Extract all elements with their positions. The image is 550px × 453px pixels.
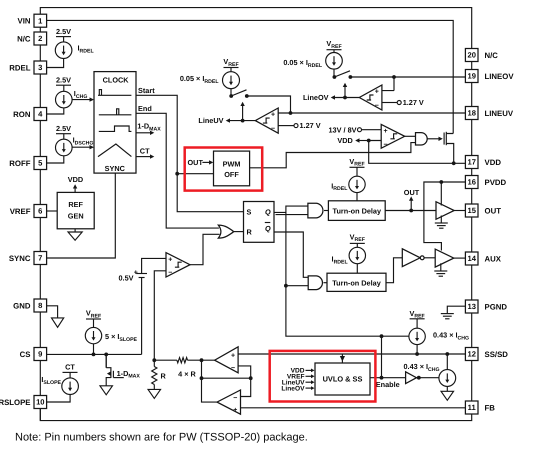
wire LineOV feedback arrow up to switch [343, 83, 347, 98]
wire OR output to R input [234, 231, 244, 233]
gate OR into latch R [218, 225, 233, 238]
wire ICHG source to pin 4 [47, 108, 64, 114]
node VDD arrow label [337, 136, 368, 145]
node OUT input label into PWM OFF [188, 158, 214, 167]
wire PVDD rail to drivers [424, 182, 466, 251]
node LineUV output junction [241, 119, 245, 123]
pin 20 N/C [465, 49, 498, 62]
current source IRDEL [55, 42, 94, 59]
resistor 4xR [154, 358, 214, 379]
node A summing junction [152, 358, 156, 362]
node junction 5xISLOPE/CS [92, 353, 96, 357]
wire lower delay output up to inverter [386, 258, 402, 283]
wire comparator output up to OR gate input [190, 234, 220, 264]
wire CS pin to comparator riser [47, 344, 142, 368]
pin 6 VREF [10, 205, 47, 218]
wire switch to LineUV comparator plus input and pin 18 [247, 96, 466, 113]
wire slope comparator plus input to SS/SD rail [238, 353, 465, 355]
wire VREF pin to REF GEN [47, 210, 58, 212]
wire enable buffer to SS discharge source [417, 377, 440, 379]
wire right border segment [471, 120, 473, 156]
wire 1-DMAX arrow [136, 131, 154, 135]
wire AND output arrow to pass FET gate [428, 137, 443, 141]
block CLOCK oscillator [94, 72, 136, 174]
IC outline bottom border [40, 409, 471, 421]
pin 16 PVDD [465, 176, 506, 189]
wire upper AND gate lower input [276, 214, 308, 216]
wire right border segment [471, 217, 473, 252]
pin 7 SYNC [9, 252, 47, 265]
node junction charge/SS [415, 352, 419, 356]
buffer U-enable [404, 362, 440, 383]
wire EA plus input to FB pin [241, 407, 466, 409]
wire right border segment [471, 189, 473, 205]
pin 15 OUT [465, 204, 501, 217]
wire Start from CLOCK down to PWM OFF and latch S [136, 95, 244, 211]
wire ISLOPE to RSLOPE pin [47, 395, 71, 403]
pin 12 SS/SD [465, 348, 508, 361]
current source ICHG [56, 89, 88, 108]
ground below REF GEN [68, 229, 82, 241]
wire End from CLOCK down to OR gate input [136, 113, 219, 228]
resistor R [152, 360, 167, 389]
wire right border segment [471, 83, 473, 107]
gate AND U-out [308, 203, 323, 218]
power rail VREF for LineUV source [223, 57, 238, 72]
node junction discharge/SS [445, 352, 449, 356]
node junction buffer output [417, 376, 421, 380]
wire SS rail tap into UVLO block top [340, 354, 345, 363]
comparator U-LineOV (points left) [359, 85, 382, 110]
pin 11 FB [465, 401, 495, 414]
current source 0.43xICHG charge [409, 328, 469, 344]
wire Q branch down to lower AND and 0.43 source line [286, 212, 409, 336]
node junction enable drop [380, 376, 384, 380]
node feedback junction [200, 376, 204, 380]
switch LineOV hysteresis [333, 69, 353, 79]
block PWM OFF [214, 151, 250, 186]
node OUT tap with up arrow [404, 188, 420, 212]
wire left border segment [39, 170, 41, 205]
current source 5xISLOPE [85, 327, 137, 343]
comparator U-PWM (0.5V CS comparator) [166, 253, 190, 277]
node minus tie junction [249, 376, 253, 380]
wire left border segment [39, 27, 41, 32]
ground under discharge source [441, 391, 454, 400]
current source IRDEL lower delay [332, 247, 366, 265]
wire switch to LineOV comparator plus input and pin 19 [350, 77, 465, 91]
wire left border segment [39, 265, 41, 300]
wire junction to lower AND bottom input [286, 285, 308, 287]
wire comparator output to AND gate [405, 135, 416, 137]
pin 1 VIN [18, 14, 47, 27]
power rail VREF for 5xISLOPE [86, 309, 101, 328]
wire latch Qbar to lower AND top input [274, 232, 308, 277]
pin 19 LINEOV [465, 70, 514, 83]
block UVLO and SS [315, 363, 370, 395]
switch LineUV hysteresis [229, 89, 248, 98]
node slope summing output junction [200, 358, 204, 362]
node 13V/8V terminal [329, 125, 382, 134]
wire left border segment [39, 218, 41, 252]
ground at GND pin [47, 306, 64, 328]
current source IRDEL upper delay [331, 176, 365, 192]
highlight red box around PWM OFF [185, 148, 263, 191]
power rail VREF upper turn-on delay [349, 157, 364, 176]
node junction Start/PWMOFF [175, 172, 179, 176]
current source 0.43xICHG discharge [439, 370, 456, 387]
power rail 2.5V for ICHG [56, 76, 71, 92]
wire inverter to AUX driver [424, 257, 435, 259]
current source 0.05xIRDEL LineUV [180, 72, 240, 89]
current source IDSCHG [56, 136, 94, 156]
battery 0.5V offset [118, 270, 147, 283]
wire driver to AUX pin [454, 257, 466, 259]
current source 0.05xIRDEL LineOV [283, 53, 342, 70]
pin 14 AUX [465, 252, 501, 265]
node junction LineOV plus [392, 75, 396, 79]
node LineOV input into UVLO [281, 385, 314, 392]
power rail VREF for 0.43 charge source [409, 309, 424, 328]
wire 0.43 line down to Enable wire [381, 336, 383, 378]
node Q branch junction to lower AND [284, 284, 288, 288]
wire source into delay block [356, 193, 358, 201]
wire right border segment [471, 265, 473, 300]
power rail VREF for LineOV source [326, 39, 341, 53]
node junction on 0.43 control line [380, 334, 384, 338]
pin 18 LINEUV [465, 107, 513, 120]
node junction DMAX switch/CS [104, 353, 108, 357]
wire left border segment [39, 312, 41, 348]
wire REF GEN VDD arrow up [73, 184, 77, 192]
wire left border segment [39, 121, 41, 157]
current source ISLOPE [41, 375, 78, 395]
wire left border to bottom [39, 409, 41, 421]
wire SS rail down to discharge source [446, 354, 448, 370]
IC outline top border [40, 8, 471, 49]
wire discharge source to ground [446, 386, 448, 391]
pin 10 RSLOPE [0, 396, 47, 409]
pin 9 CS [20, 348, 47, 361]
wire comparator plus input to battery and CS wire [142, 258, 166, 354]
wire LineUV comparator output with arrow to LineUV net [198, 116, 255, 125]
wire PVDD down into OUT driver [440, 182, 442, 206]
node Enable output [370, 378, 406, 390]
block Turn-on Delay upper [328, 201, 385, 221]
highlight red box around UVLO and SS [270, 351, 376, 402]
wire source into lower delay block [356, 264, 358, 274]
wire PWM OFF output to AND gate second input [250, 143, 416, 168]
pin 3 RDEL [9, 61, 46, 74]
ground at PGND pin [441, 306, 466, 319]
transistor Q1 VDD pass FET [444, 132, 454, 164]
block REF GEN [57, 192, 94, 228]
comparator U-VDDUVLO 13V/8V (points right) [381, 124, 405, 148]
pin 5 ROFF [9, 157, 46, 170]
wire AND to lower Turn-on Delay [324, 282, 328, 284]
wire left border segment [39, 45, 41, 61]
node PVDD junction above OUT driver [439, 180, 443, 184]
wire charge source to SS rail [416, 345, 418, 354]
wire right border segment [471, 62, 473, 70]
power rail 2.5V for IDSCHG [56, 124, 71, 139]
node CT rail for ISLOPE [63, 363, 78, 378]
wire VDD junction down to VDD rail [369, 141, 466, 164]
wire delay output to OUT driver [385, 210, 436, 212]
wire right border segment [471, 169, 473, 176]
pin 8 GND [13, 299, 46, 312]
wire LineUV comparator minus to 1.27V terminal [278, 121, 321, 130]
wire LineOV comparator output with arrow to LineOV net [303, 93, 359, 102]
wire right border segment [471, 48, 473, 50]
node LineOV output junction [343, 96, 347, 100]
wire latch Q output to upper AND gate (step up) [274, 206, 308, 212]
power rail VREF lower turn-on delay [350, 232, 365, 247]
pin 4 RON [13, 108, 46, 121]
wire IDSCHG arrow into CLOCK [72, 145, 94, 149]
wire IDSCHG source to pin 5 [47, 156, 64, 163]
block Turn-on Delay lower [327, 273, 386, 291]
node VDD input into UVLO [291, 368, 315, 375]
wire left border segment [39, 74, 41, 108]
wire right border segment [471, 313, 473, 348]
wire right border segment [471, 361, 473, 402]
driver buffer U-AUX [435, 249, 454, 267]
wire LineOV comparator minus to 1.27V terminal [382, 98, 424, 107]
node VDD rail junction at pass FET source [452, 161, 456, 165]
wire LineUV feedback arrow up to switch [240, 102, 244, 121]
power rail 2.5V for IRDEL [56, 27, 71, 42]
ground under 1-DMAX switch [100, 386, 113, 395]
wire ICHG arrow into CLOCK [72, 97, 94, 101]
inverter U-auxinv [402, 249, 424, 267]
wire comparator minus input down to summing node A [154, 271, 166, 360]
node junction LineUV plus [289, 111, 293, 115]
wire Start vertical into PWM OFF second input [177, 173, 213, 175]
op-amp U-slope (points left) [215, 347, 239, 373]
wire VIN rail from pin1 to regulator drain [47, 20, 454, 133]
wire feedback tie to minus inputs [202, 366, 251, 397]
ground under AUX driver [434, 263, 447, 276]
comparator U-LineUV (points left) [255, 108, 278, 133]
wire left border segment [39, 361, 41, 396]
node LineUV input into UVLO [282, 380, 315, 387]
pin 2 N/C [17, 32, 47, 45]
wire output node down to EA output [202, 360, 218, 402]
node VDD junction dot [367, 139, 371, 143]
pin 17 VDD [465, 156, 501, 169]
wire SYNC pin to CLOCK [47, 173, 116, 258]
wire IRDEL source to pin 3 [47, 59, 64, 68]
node VREF input into UVLO [287, 374, 315, 381]
op-amp U-ea (points left) [217, 390, 241, 414]
wire driver to OUT pin [454, 210, 465, 212]
ground under resistor R [148, 389, 161, 398]
transistor Q2 1-DMAX switch [106, 354, 140, 385]
latch U-SR flip-flop [244, 202, 275, 243]
gate AND U-vddsw [416, 133, 428, 145]
wire CT arrow [136, 154, 154, 158]
wire AND to Turn-on Delay [324, 210, 328, 212]
ground under OUT driver [435, 216, 448, 229]
pin 13 PGND [465, 300, 507, 313]
gate AND U-aux [308, 276, 322, 290]
driver buffer U-OUT [436, 202, 454, 220]
